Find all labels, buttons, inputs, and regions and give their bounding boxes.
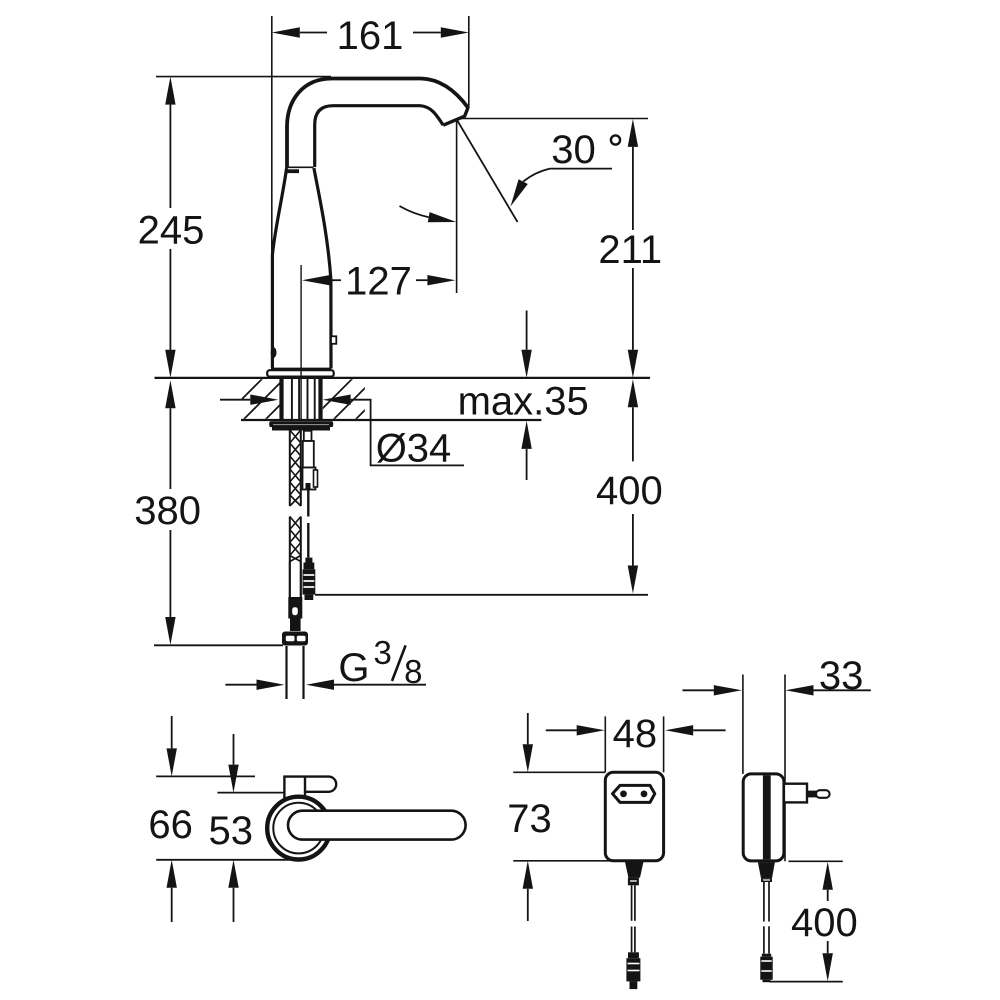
33 extension lines	[742, 675, 744, 774]
svg-text:380: 380	[134, 489, 201, 533]
cable end line side	[769, 981, 843, 983]
svg-text:G: G	[338, 646, 369, 690]
cable plug tip	[305, 595, 314, 600]
dimension 400 main bottom arrow	[628, 566, 638, 594]
svg-text:30: 30	[551, 128, 596, 172]
faucet spout inner contour	[315, 106, 444, 167]
48 extension lines	[604, 716, 606, 772]
center line of faucet	[300, 265, 302, 421]
deck bottom line	[241, 419, 541, 421]
cable walls through deck	[307, 379, 309, 422]
svg-text:73: 73	[507, 797, 552, 841]
400 side top arrow	[823, 862, 833, 890]
sensor cable fitting	[304, 431, 312, 441]
svg-text:400: 400	[596, 469, 663, 513]
bottom reference line	[156, 859, 290, 861]
faucet body bottom line	[272, 368, 331, 370]
dimension 400 main top arrow	[628, 379, 638, 407]
braided hose upper	[290, 430, 301, 506]
swivel arc with arrow	[400, 206, 429, 217]
dimension 161 line right arrow	[441, 27, 469, 37]
dimension 161 right extension line	[468, 16, 470, 108]
svg-text:3: 3	[374, 634, 392, 671]
svg-text:Ø34: Ø34	[376, 427, 452, 471]
body circle inner (top view)	[273, 803, 324, 854]
66 top reference line	[156, 775, 255, 777]
sensor cable tube	[303, 441, 314, 468]
shank left wall	[279, 379, 283, 421]
deck top line	[155, 377, 651, 379]
cable end reference line	[315, 594, 648, 596]
deck hatch left	[220, 378, 307, 421]
sensor cable wire lower	[307, 523, 309, 558]
base plate	[267, 370, 334, 376]
30 degree leader curve and arrow	[523, 169, 550, 182]
svg-text:161: 161	[337, 14, 404, 58]
dimension 380 bottom arrow	[165, 617, 175, 645]
G3/8 nut	[282, 632, 308, 646]
53 bottom arrow	[228, 860, 238, 888]
dimension 245 bottom arrow	[165, 350, 175, 378]
front cable wire	[631, 885, 633, 921]
30 degree leader underline	[550, 168, 612, 170]
side cable exit	[758, 862, 775, 878]
dimension 245 top extension line	[156, 76, 331, 78]
svg-text:400: 400	[791, 901, 858, 945]
hose lower piece	[290, 619, 301, 632]
G 3/8 dimension arrows	[225, 684, 256, 686]
faucet body right edge	[314, 168, 331, 369]
right side tick detail	[331, 336, 336, 344]
sensor cable wire upper	[307, 490, 309, 517]
rear sensor housing (top view)	[284, 777, 336, 799]
dimension 380 top arrow	[165, 380, 175, 408]
dimension 161 line left arrow	[272, 27, 300, 37]
adapter side box	[743, 774, 784, 861]
dimension 161 left extension line	[271, 16, 273, 370]
svg-text:33: 33	[819, 654, 864, 698]
svg-text:8: 8	[404, 653, 422, 690]
dimension 211 top arrow	[628, 119, 638, 147]
53 reference line	[217, 792, 284, 794]
svg-text:245: 245	[138, 209, 205, 253]
dimension O34 right arrow and leader	[323, 395, 351, 405]
dimension max.35 bottom arrow	[521, 421, 531, 449]
side seam stripe	[763, 775, 771, 859]
hose connector with slot	[288, 604, 302, 619]
dimension 211 bottom arrow	[628, 350, 638, 378]
body circle outer (top view)	[267, 797, 330, 860]
spout (top view)	[288, 811, 466, 840]
53 top arrow	[233, 734, 235, 765]
hose end tube	[289, 562, 291, 598]
svg-text:66: 66	[148, 803, 193, 847]
front cable exit	[625, 862, 644, 878]
cable plug collar	[305, 558, 312, 563]
dimension 127 left arrow	[302, 275, 330, 285]
faucet spout outer contour	[287, 79, 468, 169]
30 degree diagonal line	[457, 121, 517, 223]
svg-text:48: 48	[613, 712, 658, 756]
dimension 245 top arrow	[165, 77, 175, 105]
spout tip end edge	[443, 108, 468, 126]
sensor window dot	[271, 347, 277, 358]
spout tip vertex vertical line	[456, 121, 458, 293]
mousseur dash	[287, 169, 299, 173]
66 top arrow	[171, 716, 173, 748]
380 bottom reference line	[154, 644, 283, 646]
deck hatch right	[310, 378, 397, 421]
faucet body left edge	[272, 168, 286, 369]
66 bottom arrow	[167, 860, 177, 888]
dimension 211 extension line	[460, 118, 648, 120]
33 dimension arrows	[683, 689, 715, 691]
dimension 127 right arrow	[427, 275, 455, 285]
hose walls through deck	[291, 379, 293, 422]
plug collar	[784, 784, 807, 803]
48 dimension arrows	[546, 729, 577, 731]
shank right wall	[318, 379, 322, 421]
spout joint line	[288, 166, 314, 168]
73 extension lines	[513, 771, 605, 773]
73 top arrow	[527, 713, 529, 744]
dimension O34 left arrow	[220, 399, 250, 401]
side cable plug	[762, 954, 771, 957]
400 side bottom arrow	[823, 953, 833, 981]
front cable plug	[628, 952, 639, 958]
svg-text:211: 211	[598, 228, 662, 272]
braided hose lower	[290, 517, 301, 562]
hose end dark band	[288, 597, 302, 604]
supply pipe	[285, 646, 287, 699]
sensor cable connector block	[303, 468, 316, 490]
adapter front box	[605, 772, 663, 861]
73 bottom arrow	[523, 861, 533, 889]
svg-text:53: 53	[209, 809, 254, 853]
svg-text:max.35: max.35	[458, 380, 589, 424]
mounting washer below deck	[269, 421, 333, 427]
euro pin	[807, 791, 817, 798]
svg-text:127: 127	[345, 260, 412, 304]
cable plug barrel	[303, 569, 316, 594]
euro socket symbol	[613, 785, 655, 802]
dimension max.35 top arrow	[526, 311, 528, 350]
side cable wire	[763, 882, 765, 922]
side box bottom extension line	[789, 860, 843, 862]
